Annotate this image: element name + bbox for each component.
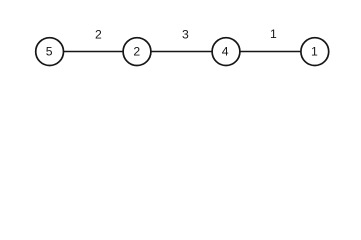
node 5 (36, 38, 64, 66)
node 2 (123, 38, 151, 66)
svg-text:1: 1 (270, 27, 277, 41)
wire edge 5-2 (50, 51, 137, 53)
node 1 (301, 38, 329, 66)
wire edge 2-4 (137, 51, 226, 53)
node 4 (212, 38, 240, 66)
svg-text:2: 2 (95, 28, 102, 42)
wire edge 4-1 (226, 51, 315, 53)
svg-text:4: 4 (222, 45, 229, 59)
svg-text:5: 5 (46, 45, 53, 59)
svg-text:2: 2 (133, 45, 140, 59)
svg-text:3: 3 (182, 28, 189, 42)
svg-text:1: 1 (311, 45, 318, 59)
